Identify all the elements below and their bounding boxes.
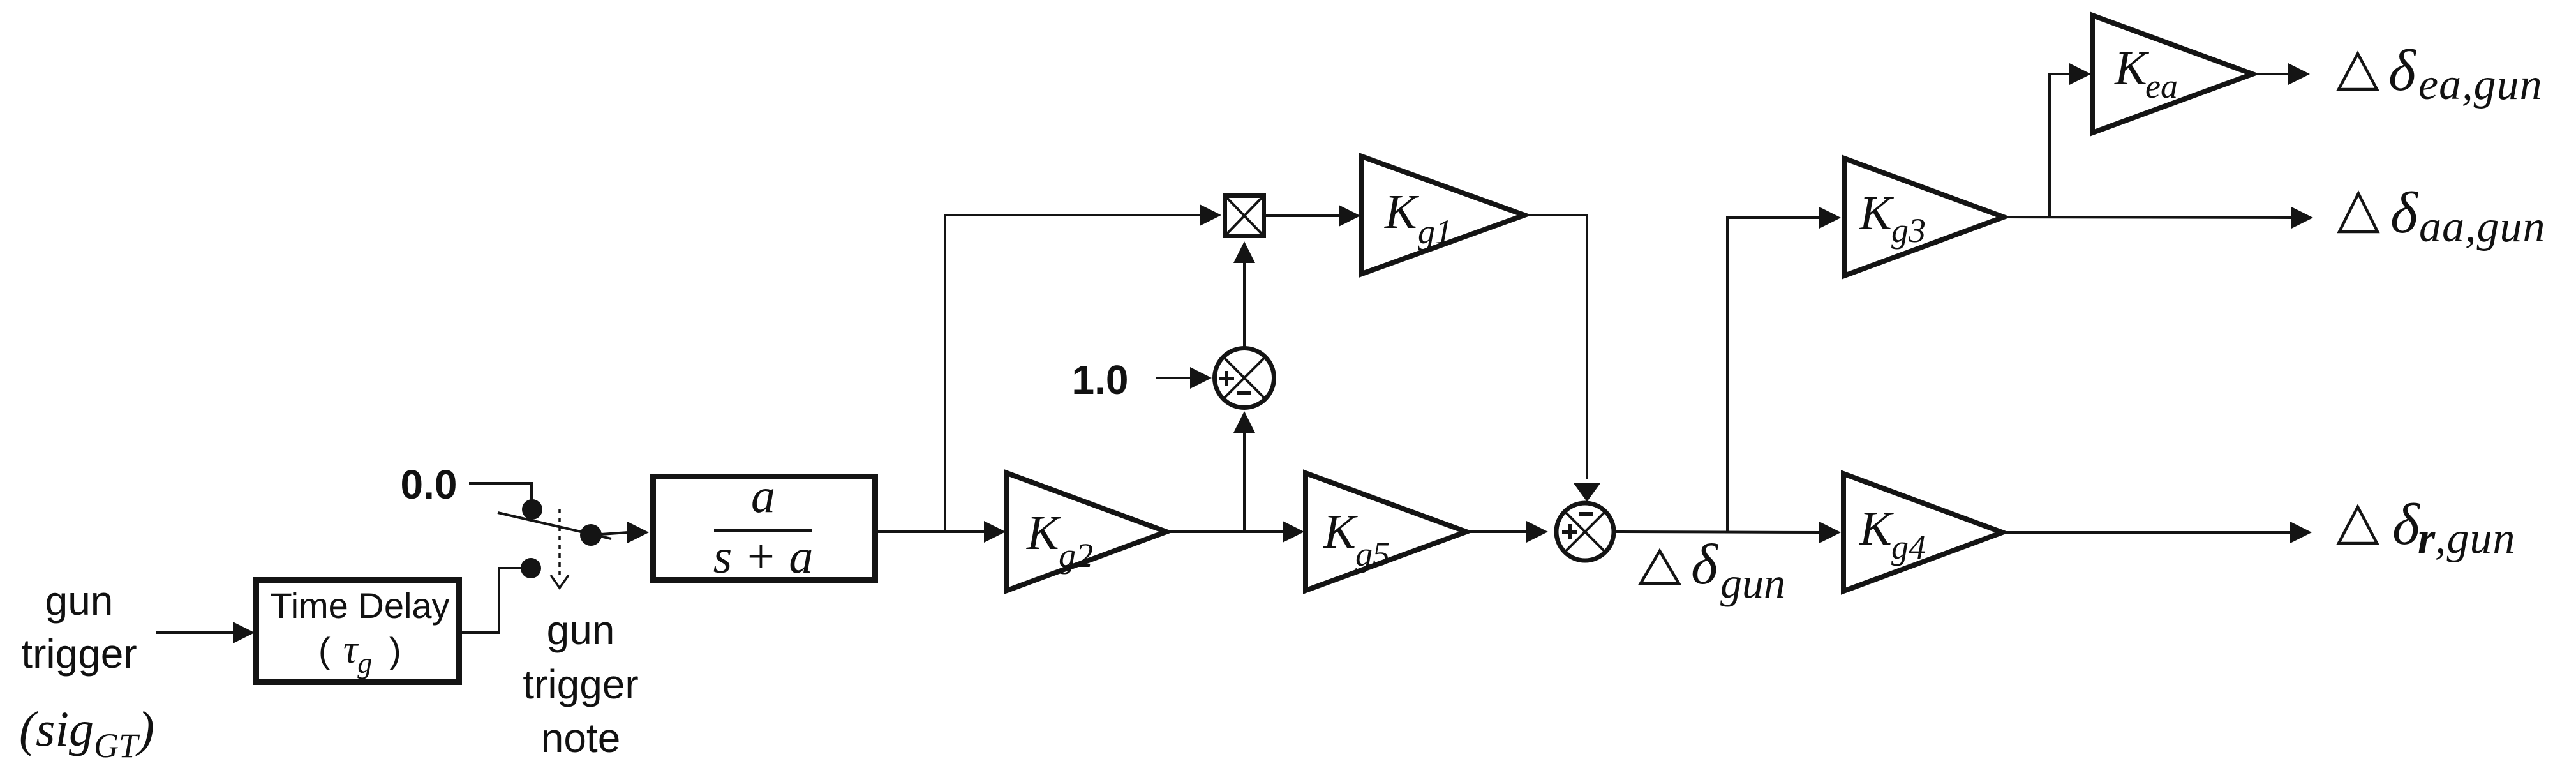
wire: Kea output to ea,gun output [2252,73,2288,75]
wire: branch up to Kea [2050,74,2069,217]
node: output label Delta delta_ea,gun [2339,54,2377,89]
multiplier M1 box [1225,196,1264,236]
svg-text:K: K [1859,502,1894,555]
svg-text:gun: gun [547,607,615,653]
wire: 1.0 to summing junction S1 [1156,377,1191,379]
wire: Kg4 output to r,gun output [2002,531,2290,534]
node: switch upper contact dot [522,499,542,520]
svg-text:δ: δ [2388,38,2416,103]
node: Delta delta_gun label [1641,551,1679,583]
svg-text:δ: δ [2390,180,2418,245]
wire: Time Delay output to switch lower contact [462,568,531,633]
svg-text:aa,gun: aa,gun [2419,202,2546,252]
svg-text:g3: g3 [1891,211,1926,250]
svg-text:K: K [1859,186,1894,240]
svg-text:gun: gun [45,578,114,624]
svg-text:note: note [541,715,621,761]
svg-text:a: a [751,469,775,523]
svg-text:g1: g1 [1418,213,1452,251]
svg-text:1.0: 1.0 [1072,357,1129,403]
node: output label Delta delta_aa,gun [2339,193,2378,232]
wire: Kg5 output to summing junction S2 [1466,530,1526,533]
svg-text:trigger: trigger [523,661,638,707]
gain K_g5 triangle [1306,473,1466,591]
gain K_g3 triangle [1844,158,2004,276]
svg-text:gun: gun [1720,559,1785,607]
wire: branch up to summing junction S1 [1243,433,1246,532]
wire: S1 output up to multiplier [1243,263,1246,348]
wire: multiplier to Kg1 [1266,214,1339,217]
svg-text:(: ( [318,630,331,670]
gain K_ea triangle [2092,15,2252,133]
gain K_g2 triangle [1007,473,1166,591]
switch SW1: lever arm [498,513,611,539]
wire: branch up to multiplier [945,215,1200,532]
wire: branch up to Kg3 [1727,218,1819,532]
svg-text:K: K [1026,506,1061,560]
node: switch common dot [580,524,602,546]
wire: 0.0 to switch upper contact [469,483,532,501]
svg-text:g2: g2 [1059,536,1093,575]
block U2: a/(s+a) low-pass filter [653,477,875,580]
svg-text:trigger: trigger [21,631,137,677]
svg-text:ea,gun: ea,gun [2418,60,2543,109]
switch SW1: actuator dashed arrow [558,509,561,575]
svg-text:Time Delay: Time Delay [270,585,449,626]
wire: Kg2 output to Kg5 [1166,530,1283,533]
svg-text:): ) [389,630,401,670]
svg-text:K: K [1323,505,1358,559]
wire: gun trigger to Time Delay [156,631,234,634]
node: output label Delta delta_r,gun [2339,507,2377,543]
svg-text:g4: g4 [1891,528,1926,566]
summing junction S2 [1556,503,1614,561]
summing junction S1 [1215,349,1274,408]
gain K_g4 triangle [1843,474,2002,591]
svg-text:g5: g5 [1355,535,1390,573]
wire: S2 output to Kg4 [1614,532,1819,532]
wire: Kg3 output to aa,gun output [2004,217,2291,218]
svg-text:s + a: s + a [713,530,814,583]
gain K_g1 triangle [1362,156,1524,274]
svg-text:ea: ea [2145,67,2178,105]
wire: Kg1 output down to summing junction S2 [1524,215,1587,479]
svg-text:,gun: ,gun [2435,514,2516,563]
svg-text:0.0: 0.0 [401,462,458,508]
svg-text:K: K [2114,41,2149,95]
svg-text:K: K [1384,185,1419,239]
svg-text:r: r [2418,514,2436,563]
wire: switch common to filter block [592,532,628,535]
node: switch lower contact dot [521,558,541,578]
svg-text:δ: δ [2392,492,2420,557]
wire: filter output to Kg2 [875,530,984,533]
block U1: Time Delay [257,580,459,682]
svg-text:δ: δ [1691,533,1719,596]
